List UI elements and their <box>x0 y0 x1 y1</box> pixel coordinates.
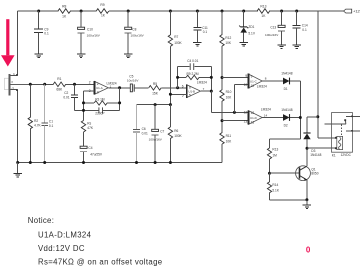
svg-text:10: 10 <box>244 83 248 87</box>
svg-text:R14: R14 <box>272 183 278 187</box>
capacitor C6 (grey net) <box>136 105 138 130</box>
svg-text:47u/25V: 47u/25V <box>90 153 103 157</box>
wire R14 to emitter/ground <box>270 199 308 201</box>
svg-text:100u/16V: 100u/16V <box>265 33 279 37</box>
svg-text:LM324: LM324 <box>197 81 207 85</box>
svg-text:R3 1M: R3 1M <box>95 98 105 102</box>
svg-text:6: 6 <box>182 84 184 88</box>
svg-text:R1: R1 <box>57 77 61 81</box>
resistor R8 <box>58 9 70 14</box>
svg-text:C13: C13 <box>270 25 276 29</box>
relay coil <box>337 136 343 149</box>
svg-text:X: X <box>11 80 13 84</box>
svg-text:15K: 15K <box>152 91 159 95</box>
wire base node <box>268 172 271 175</box>
svg-text:D2: D2 <box>284 123 288 127</box>
svg-text:10: 10 <box>251 84 255 88</box>
resistor R5 <box>149 86 162 91</box>
svg-text:C8: C8 <box>132 27 136 31</box>
electret microphone MIC <box>4 78 8 89</box>
svg-text:R12: R12 <box>225 36 231 40</box>
relay common contact stub <box>325 123 346 125</box>
svg-text:R9: R9 <box>100 3 104 7</box>
resistor Rs 47K <box>81 120 85 132</box>
vref node wiring <box>137 104 171 106</box>
relay K1 12VDC <box>332 113 353 153</box>
wire threshold to U1C pin9 <box>221 76 224 79</box>
op-amp U1A <box>95 81 109 94</box>
wire signal to U1C pin10 <box>233 111 236 114</box>
svg-text:0.01: 0.01 <box>63 96 69 100</box>
svg-text:2: 2 <box>97 82 99 86</box>
svg-text:R7: R7 <box>174 35 178 39</box>
coupling capacitor C5 10u/16V <box>130 84 132 92</box>
wire collector <box>306 148 308 166</box>
svg-text:5.1K: 5.1K <box>272 189 279 193</box>
op-amp U1C <box>248 74 262 88</box>
capacitor C4 47u/25V <box>80 146 87 148</box>
svg-text:Rs: Rs <box>87 122 91 126</box>
capacitor C11 <box>196 10 199 13</box>
ground under ZD1 <box>243 41 245 43</box>
wire coil bottom to collector node <box>307 147 337 149</box>
svg-text:5: 5 <box>189 94 191 98</box>
svg-text:6: 6 <box>189 85 191 89</box>
capacitor C10 <box>80 10 83 13</box>
ground rail <box>18 162 222 164</box>
wire R1 to U1A pin2 <box>66 83 95 85</box>
svg-text:0.01: 0.01 <box>142 131 148 135</box>
svg-text:C2: C2 <box>64 91 68 95</box>
svg-text:100u/16V: 100u/16V <box>149 137 163 141</box>
wire mic drain to rail <box>11 75 18 77</box>
resistor R13 (rail) <box>257 9 270 14</box>
threshold divider chain <box>221 10 224 13</box>
svg-text:Rs=47KΩ @ on an offset voltage: Rs=47KΩ @ on an offset voltage <box>38 257 162 266</box>
svg-text:47K: 47K <box>87 126 94 130</box>
svg-text:12: 12 <box>244 111 248 115</box>
svg-text:5.1V: 5.1V <box>248 32 255 36</box>
svg-text:LM324: LM324 <box>107 81 117 85</box>
svg-text:R13: R13 <box>272 147 278 151</box>
resistor R2 <box>29 83 32 86</box>
svg-text:0.1: 0.1 <box>44 31 49 35</box>
svg-text:C7: C7 <box>160 130 164 134</box>
svg-text:1K: 1K <box>261 14 266 18</box>
wire U1B pin5 to vref <box>170 93 186 95</box>
ground under C11 <box>196 41 198 43</box>
feedback capacitor C4b 0.01 <box>178 66 190 68</box>
svg-text:4.7K: 4.7K <box>34 124 41 128</box>
svg-text:9: 9 <box>245 74 247 78</box>
wire threshold to U1D pin13 <box>221 119 224 122</box>
diode D3 1N4148 flyback <box>317 11 319 138</box>
wire mic source (signal) <box>11 83 31 85</box>
svg-text:U1-D: U1-D <box>250 116 257 120</box>
svg-text:1N4148: 1N4148 <box>281 72 292 76</box>
wire emitter <box>306 180 308 200</box>
svg-text:U1A-D:LM324: U1A-D:LM324 <box>38 230 92 239</box>
svg-text:Notice:: Notice: <box>28 216 54 225</box>
wire U1A output <box>108 87 130 89</box>
ground under C13 <box>281 43 283 45</box>
svg-text:Vdd:12V DC: Vdd:12V DC <box>38 244 85 253</box>
feedback resistor R3 1M <box>119 88 121 111</box>
zener ZD1 5.1V <box>242 10 245 13</box>
svg-text:100u/16V: 100u/16V <box>87 33 101 37</box>
svg-text:D1: D1 <box>284 87 288 91</box>
resistor R10 <box>220 90 224 102</box>
svg-text:R9 2.2M: R9 2.2M <box>187 72 199 76</box>
resistor R14 5.1K <box>269 173 271 182</box>
svg-text:3: 3 <box>97 90 99 94</box>
svg-text:R5: R5 <box>153 82 157 86</box>
svg-text:0.1: 0.1 <box>203 30 208 34</box>
resistor R9 <box>96 9 109 14</box>
diode D2 1N4148 <box>262 117 283 119</box>
svg-text:K1: K1 <box>332 153 336 157</box>
svg-text:1N4148: 1N4148 <box>310 153 321 157</box>
svg-text:C10: C10 <box>87 27 93 31</box>
svg-text:100u/16V: 100u/16V <box>131 33 145 37</box>
relay armature <box>344 120 346 124</box>
ground symbol left <box>17 163 19 173</box>
svg-text:R2: R2 <box>34 119 38 123</box>
ground under C14 <box>296 43 298 45</box>
svg-text:2200P: 2200P <box>95 112 104 116</box>
wire U1A pin3 <box>84 90 95 92</box>
ground at emitter <box>306 200 308 205</box>
feedback resistor R9b 2.2M <box>177 67 179 88</box>
capacitor C13 <box>280 10 283 13</box>
svg-text:0.1: 0.1 <box>302 28 307 32</box>
svg-text:R13: R13 <box>260 4 266 8</box>
wire diode-OR bus <box>299 81 301 139</box>
svg-text:U1-C: U1-C <box>250 79 257 83</box>
resistor R13b 1M <box>269 139 271 148</box>
svg-text:8: 8 <box>265 76 267 80</box>
svg-text:10K: 10K <box>225 41 232 45</box>
resistor R11 <box>220 133 224 145</box>
svg-text:100K: 100K <box>174 134 182 138</box>
svg-text:0: 0 <box>306 245 311 254</box>
red annotation arrow <box>6 19 9 55</box>
capacitor C8 <box>127 10 130 13</box>
feedback capacitor 2200P <box>75 109 99 111</box>
capacitor C1 (grey net) <box>43 83 46 86</box>
svg-text:R11: R11 <box>226 134 232 138</box>
svg-text:C4 0.01: C4 0.01 <box>187 59 198 63</box>
+12v connector <box>344 9 352 13</box>
svg-text:ZD1: ZD1 <box>248 25 254 29</box>
svg-text:1K: 1K <box>62 15 67 19</box>
svg-text:7: 7 <box>203 87 205 91</box>
capacitor C9 <box>37 10 40 13</box>
svg-text:+12v: +12v <box>353 9 360 14</box>
svg-text:100K: 100K <box>174 41 182 45</box>
svg-text:1N4148: 1N4148 <box>281 108 292 112</box>
svg-text:R10: R10 <box>226 90 232 94</box>
capacitor C14 <box>295 10 298 13</box>
svg-text:R8: R8 <box>62 5 66 9</box>
svg-text:0.1: 0.1 <box>49 124 54 128</box>
svg-text:10K: 10K <box>226 95 233 99</box>
capacitor C2 <box>73 83 76 86</box>
svg-text:68K: 68K <box>56 88 63 92</box>
resistor R1 <box>53 82 66 87</box>
svg-text:1K: 1K <box>101 14 106 18</box>
svg-text:C6: C6 <box>142 127 146 131</box>
ground under C8 <box>127 53 129 55</box>
resistor R12 <box>220 35 224 47</box>
svg-text:13: 13 <box>251 121 255 125</box>
svg-text:LM324: LM324 <box>261 108 271 112</box>
svg-text:1M: 1M <box>272 153 277 157</box>
ground under C10 <box>80 53 82 55</box>
relay throw contacts <box>346 115 360 117</box>
top supply rail <box>18 10 59 12</box>
svg-text:12VDC: 12VDC <box>341 153 352 157</box>
svg-text:14: 14 <box>264 113 268 117</box>
wire +12V to coil top <box>318 137 337 139</box>
svg-text:10K: 10K <box>226 139 233 143</box>
svg-text:2: 2 <box>89 81 91 85</box>
svg-text:12: 12 <box>251 111 255 115</box>
svg-text:LM324: LM324 <box>257 84 267 88</box>
svg-text:10u/16V: 10u/16V <box>127 79 139 83</box>
diode D1 1N4148 <box>262 80 283 82</box>
transistor Q1 8050 <box>296 166 311 181</box>
svg-text:9: 9 <box>251 75 253 79</box>
svg-text:8050: 8050 <box>311 172 318 176</box>
resistor R7 <box>169 10 172 13</box>
op-amp U1B <box>187 85 201 98</box>
wire mic gnd pin down <box>11 88 18 90</box>
svg-text:C4: C4 <box>88 146 92 150</box>
op-amp U1D <box>248 111 262 125</box>
wire R5 to U1B pin6 <box>162 87 187 89</box>
ground under C9 <box>38 53 40 55</box>
svg-text:13: 13 <box>244 119 248 123</box>
resistor R6 100K <box>169 105 171 128</box>
svg-text:R6: R6 <box>174 129 178 133</box>
capacitor C7 100u/16V <box>154 105 156 130</box>
svg-text:C1: C1 <box>49 119 53 123</box>
wire U1B output down to comparators <box>201 90 211 92</box>
